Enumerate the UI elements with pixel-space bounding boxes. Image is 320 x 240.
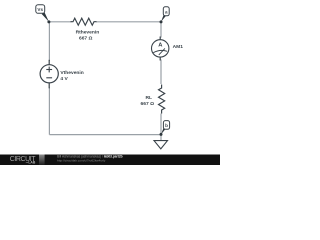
svg-text:b: b <box>165 123 168 128</box>
svg-text:http://circuitlab.com/c/7ru62k: http://circuitlab.com/c/7ru62kw4urly <box>57 158 106 162</box>
svg-text:∼LAB: ∼LAB <box>26 161 36 165</box>
svg-text:4 V: 4 V <box>60 76 68 82</box>
node flag a pointer <box>161 15 166 22</box>
node flag Vs pointer <box>42 12 49 22</box>
wire bottom rail <box>49 134 161 136</box>
ammeter needle <box>159 48 165 55</box>
resistor Rthevenin <box>71 18 97 25</box>
svg-text:Vthevenin: Vthevenin <box>60 70 83 76</box>
voltage source Vthevenin <box>48 60 50 65</box>
svg-text:a: a <box>165 9 168 14</box>
wire ammeter to RL <box>160 60 162 85</box>
svg-text:RL: RL <box>145 95 152 101</box>
watermark bar <box>0 155 220 166</box>
plus sign <box>46 69 52 71</box>
junction dot Vs <box>47 20 50 23</box>
node flag b pointer <box>161 128 165 134</box>
wire left rail upper <box>48 22 50 61</box>
svg-text:667 Ω: 667 Ω <box>141 101 155 107</box>
svg-text:AM1: AM1 <box>173 44 184 50</box>
wire top-left segment <box>49 21 71 23</box>
wire right rail corner to ammeter <box>160 22 162 38</box>
node flag Vs box <box>36 5 45 14</box>
watermark logo strip <box>39 155 45 166</box>
ground <box>154 141 168 149</box>
resistor RL <box>159 85 165 114</box>
ammeter AM1 <box>159 37 161 41</box>
wire RL to bottom junction <box>160 114 162 135</box>
svg-text:Vs: Vs <box>37 7 43 12</box>
wire left rail lower <box>48 88 50 135</box>
svg-text:667 Ω: 667 Ω <box>79 36 93 42</box>
ammeter meter arc <box>153 50 167 52</box>
wire junction to ground <box>160 135 162 141</box>
junction dot a <box>160 20 163 23</box>
wire top-right segment <box>96 21 161 23</box>
junction dot b <box>160 133 163 136</box>
node flag a box <box>163 7 169 16</box>
svg-text:Rthevenin: Rthevenin <box>76 29 100 35</box>
node flag b box <box>163 121 169 130</box>
minus sign <box>46 77 52 79</box>
